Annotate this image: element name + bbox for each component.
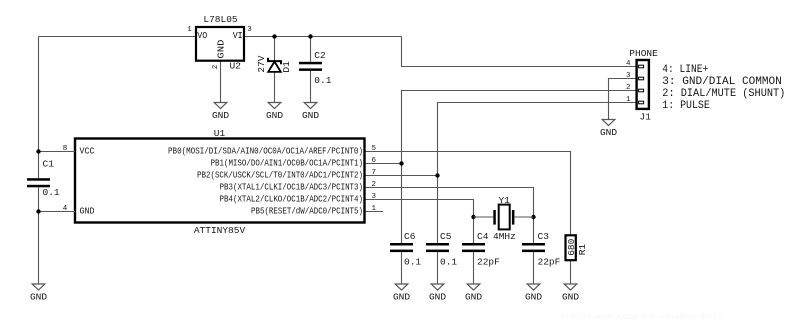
svg-text:C1: C1 — [43, 158, 55, 169]
svg-text:22pF: 22pF — [477, 256, 500, 267]
node XTAL1 junction — [471, 215, 475, 219]
svg-text:GND: GND — [465, 292, 482, 303]
svg-text:Y1: Y1 — [498, 195, 510, 206]
svg-text:6: 6 — [372, 157, 377, 165]
node C1 top junction — [36, 149, 40, 153]
wire U1 pin 8 VCC — [39, 151, 76, 153]
svg-text:7: 7 — [372, 169, 377, 177]
wire R1 bottom to GND — [570, 260, 572, 284]
capacitor C4 22pF — [462, 231, 500, 267]
svg-text:4MHz: 4MHz — [493, 231, 516, 242]
wire C1 bottom to GND — [38, 187, 40, 284]
svg-text:PB3(XTAL1/CLKI/OC1B/ADC3/PCINT: PB3(XTAL1/CLKI/OC1B/ADC3/PCINT3) — [220, 183, 364, 193]
svg-text:2: 2 — [212, 65, 220, 70]
node D1 rail junction — [272, 34, 276, 38]
wire J1 pin 1 PULSE to PB2 and C5 — [438, 103, 637, 244]
svg-text:U2: U2 — [230, 61, 242, 72]
svg-text:VI: VI — [233, 31, 243, 41]
svg-text:U1: U1 — [214, 128, 226, 139]
ground (J1 pin 3) — [600, 120, 617, 139]
voltage regulator U2 L78L05 — [187, 14, 252, 72]
svg-text:PB4(XTAL2/CLKO/OC1B/ADC2/PCINT: PB4(XTAL2/CLKO/OC1B/ADC2/PCINT4) — [220, 195, 364, 205]
svg-text:1: 1 — [187, 26, 192, 34]
wire Y1 right lead — [514, 216, 533, 218]
wire U2 pin 2 to GND — [220, 61, 222, 103]
wire left vertical VCC down to C1 — [38, 37, 40, 179]
capacitor C2 0.1 — [299, 50, 332, 86]
wire C5 bottom to GND — [437, 252, 439, 284]
svg-text:GND: GND — [80, 207, 95, 217]
ground (R1) — [562, 284, 579, 303]
wire PB0 to R1 top — [365, 152, 571, 236]
svg-text:680: 680 — [566, 238, 577, 255]
wire J1 pin 3 to GND — [609, 79, 637, 120]
wire U1 pin 4 GND — [39, 211, 76, 213]
svg-text:GND: GND — [266, 110, 283, 121]
svg-text:L78L05: L78L05 — [203, 14, 238, 25]
svg-text:PB2(SCK/USCK/SCL/T0/INT0/ADC1/: PB2(SCK/USCK/SCL/T0/INT0/ADC1/PCINT2) — [197, 171, 363, 181]
svg-text:1: 1 — [626, 96, 631, 104]
svg-text:3: GND/DIAL COMMON: 3: GND/DIAL COMMON — [662, 76, 782, 88]
IC U1 ATTINY85V — [57, 128, 377, 236]
svg-text:D1: D1 — [281, 61, 292, 73]
svg-text:1: PULSE: 1: PULSE — [662, 100, 710, 112]
crystal Y1 4MHz — [493, 195, 516, 242]
svg-text:Created with KiCad EDA schemat: Created with KiCad EDA schematic editor — [562, 314, 726, 322]
wire U1 pin 1 stub (unconnected) — [365, 211, 384, 213]
svg-text:GND: GND — [429, 292, 446, 303]
resistor R1 680 — [566, 235, 588, 260]
svg-text:VO: VO — [197, 31, 207, 41]
svg-text:PB1(MISO/DO/AIN1/OC0B/OC1A/PCI: PB1(MISO/DO/AIN1/OC0B/OC1A/PCINT1) — [211, 159, 364, 169]
ground (C5) — [429, 284, 446, 303]
wire C3 bottom to GND — [533, 252, 535, 284]
svg-text:22pF: 22pF — [538, 256, 561, 267]
svg-text:PHONE: PHONE — [629, 48, 658, 59]
svg-text:GND: GND — [562, 292, 579, 303]
svg-text:ATTINY85V: ATTINY85V — [194, 225, 246, 236]
wire PB4 to XTAL1 node and C4 — [365, 200, 474, 244]
node PB1 junction — [399, 161, 403, 165]
wire VCC rail from left vertical to U2 pin 1 (VO) — [39, 36, 197, 38]
svg-text:GND: GND — [212, 110, 229, 121]
svg-text:4: LINE+: 4: LINE+ — [662, 64, 708, 76]
svg-text:GND: GND — [525, 292, 542, 303]
svg-text:2: 2 — [372, 181, 377, 189]
svg-text:0.1: 0.1 — [404, 256, 421, 267]
node PB2 junction — [435, 173, 439, 177]
svg-text:0.1: 0.1 — [43, 187, 60, 198]
ground (U2 pin 2) — [212, 103, 229, 122]
wire C4 bottom to GND — [473, 252, 475, 284]
ground (C1) — [30, 284, 47, 303]
svg-text:3: 3 — [372, 193, 377, 201]
wire PB1 to column A — [365, 163, 402, 165]
zener diode D1 27V — [256, 55, 292, 72]
connector J1 PHONE — [626, 48, 658, 122]
svg-text:C3: C3 — [538, 231, 550, 242]
svg-text:R1: R1 — [577, 244, 588, 256]
svg-text:C5: C5 — [440, 231, 452, 242]
ground (C3) — [525, 284, 542, 303]
capacitor C6 0.1 — [390, 231, 421, 267]
svg-text:VCC: VCC — [80, 147, 96, 157]
svg-text:C2: C2 — [314, 50, 326, 61]
capacitor C1 0.1 — [27, 158, 60, 197]
svg-text:4: 4 — [626, 60, 631, 68]
svg-text:GND: GND — [30, 292, 47, 303]
ground (C4) — [465, 284, 482, 303]
faint footer text — [562, 314, 726, 322]
svg-text:0.1: 0.1 — [440, 256, 457, 267]
wire D1 to rail and GND — [274, 37, 276, 103]
wire LINE+ net down and right to J1 pin 4 — [402, 37, 637, 67]
capacitor C3 22pF — [522, 231, 561, 267]
ground (D1) — [266, 103, 283, 122]
wire C6 bottom to GND — [401, 252, 403, 284]
wire PB3 to XTAL2 node and C3 — [365, 188, 534, 244]
node C1 bottom junction — [36, 209, 40, 213]
ground (C2) — [302, 103, 319, 122]
svg-text:2: DIAL/MUTE (SHUNT): 2: DIAL/MUTE (SHUNT) — [662, 88, 785, 100]
wire VI rail from U2 pin 3 to corner above J1 — [244, 36, 402, 38]
svg-text:3: 3 — [626, 72, 631, 80]
ground (C6) — [393, 284, 410, 303]
node XTAL2 junction — [531, 215, 535, 219]
svg-text:GND: GND — [302, 110, 319, 121]
svg-text:1: 1 — [372, 205, 377, 213]
svg-text:GND: GND — [217, 40, 227, 59]
wire J1 pin 2 DIAL/MUTE to PB1 and C6 — [402, 91, 637, 244]
svg-text:C6: C6 — [404, 231, 416, 242]
capacitor C5 0.1 — [426, 231, 457, 267]
svg-text:2: 2 — [626, 84, 631, 92]
svg-text:GND: GND — [393, 292, 410, 303]
wire Y1 left lead — [474, 216, 494, 218]
svg-text:J1: J1 — [640, 111, 652, 122]
pin function annotations — [662, 64, 785, 112]
svg-text:GND: GND — [600, 127, 617, 138]
svg-text:PB0(MOSI/DI/SDA/AIN0/OC0A/OC1A: PB0(MOSI/DI/SDA/AIN0/OC0A/OC1A/AREF/PCIN… — [168, 147, 363, 157]
svg-text:C4: C4 — [477, 231, 489, 242]
svg-text:27V: 27V — [256, 55, 267, 72]
svg-text:PB5(RESET/dW/ADC0/PCINT5): PB5(RESET/dW/ADC0/PCINT5) — [251, 207, 363, 217]
wire C2 to rail and GND — [310, 37, 312, 103]
svg-text:0.1: 0.1 — [314, 75, 331, 86]
wire PB2 to column B — [365, 175, 438, 177]
svg-text:5: 5 — [372, 145, 377, 153]
node C2 rail junction — [308, 34, 312, 38]
svg-text:3: 3 — [247, 26, 252, 34]
